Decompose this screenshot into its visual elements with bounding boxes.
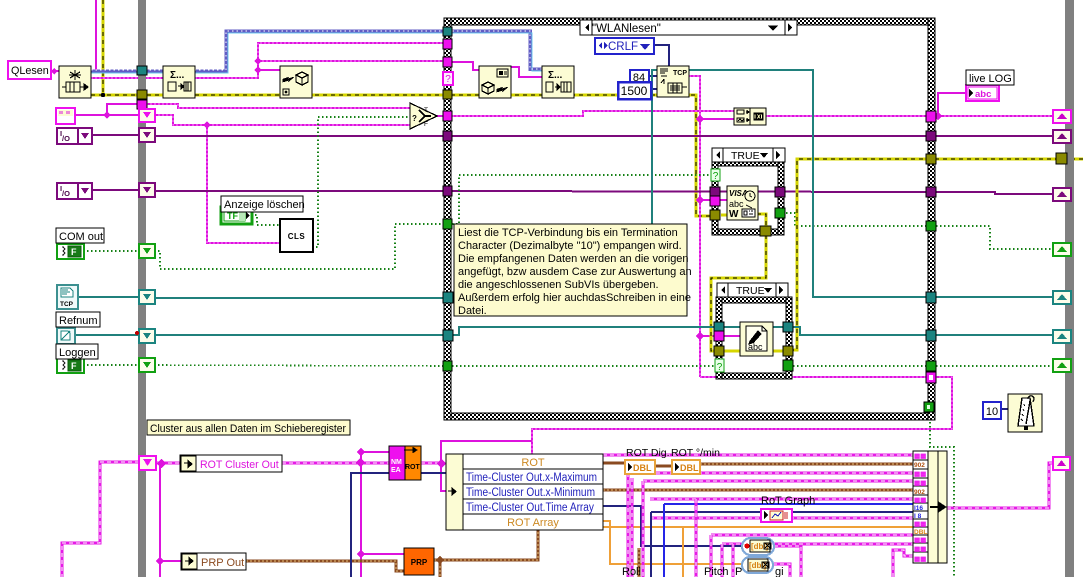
case selector WLANlesen: [580, 20, 797, 35]
svg-text:▦▦: ▦▦: [914, 453, 927, 460]
while loop left border: [138, 0, 146, 577]
svg-text:Datei.: Datei.: [458, 305, 487, 317]
tunnel string right y377: [926, 372, 936, 383]
metronome wait icon: [1008, 394, 1042, 432]
shift register left cluster: [139, 456, 156, 470]
wire purple to shift register y136: [936, 135, 1055, 137]
capsule convert 2: [742, 557, 773, 573]
wire I/O combo 1: [92, 134, 139, 136]
junction dots: [101, 93, 105, 97]
tunnel green bottom: [924, 402, 934, 412]
label live LOG: [966, 70, 1014, 85]
10 constant: [983, 402, 1001, 419]
while loop right border: [1065, 0, 1074, 577]
label Anzeige loeschen: [221, 196, 305, 212]
wire file refnum inside case: [452, 327, 716, 335]
svg-text:P: P: [735, 566, 742, 577]
tunnel teal case2 right: [783, 322, 793, 332]
svg-text:▦▦: ▦▦: [914, 497, 927, 504]
wire QLesen to dequeue: [51, 70, 59, 72]
wire COM out boolean: [83, 250, 139, 252]
label Refnum: [56, 312, 100, 327]
svg-text:Refnum: Refnum: [59, 315, 98, 327]
tunnel queue: [443, 27, 452, 36]
inner case selector TRUE 1: [712, 148, 785, 162]
wire brown y490: [603, 489, 913, 492]
svg-text:TCP: TCP: [673, 70, 687, 77]
shift register left string: [139, 109, 155, 122]
wire blue y504: [664, 503, 913, 505]
VISA write icon: [727, 186, 758, 220]
svg-text:Roll: Roll: [622, 566, 641, 577]
svg-text:ROT: ROT: [405, 464, 421, 471]
wire PRP up to bundle: [440, 530, 538, 560]
tunnel purple y191: [443, 186, 452, 196]
empty string constant: [56, 108, 75, 124]
svg-text:?: ?: [717, 362, 723, 373]
wire orange y527: [603, 526, 913, 528]
svg-text:Σ...: Σ...: [548, 70, 563, 81]
svg-text:1500: 1500: [621, 84, 648, 98]
wire PRP Out to PRP icon: [246, 561, 404, 571]
label COM out: [56, 228, 104, 243]
84 constant: [630, 70, 649, 84]
tunnel error left: [443, 90, 452, 99]
wire 84 to TCP read: [649, 75, 657, 77]
queue status icon: [163, 66, 195, 98]
tunnel olive case1 left: [710, 210, 720, 220]
svg-text:Außerdem erfolg hier auchdasSc: Außerdem erfolg hier auchdasSchreiben in…: [458, 292, 691, 304]
wire tunnel x104 to select top: [146, 104, 410, 108]
tunnel teal y297: [443, 292, 453, 303]
terminal PRP Out: [181, 553, 246, 570]
write file icon: [740, 322, 773, 356]
CRLF enum constant: [595, 38, 654, 54]
svg-text:angefügt, bzw ausdem Case zur: angefügt, bzw ausdem Case zur Auswertung…: [458, 266, 692, 278]
svg-text:10: 10: [986, 406, 998, 418]
wire branch x361 down: [360, 452, 362, 577]
wire error vertical from top at x103: [102, 0, 105, 95]
tunnel teal case2 left: [714, 322, 724, 332]
tunnel olive case2 right: [783, 346, 793, 356]
svg-text:Time-Cluster Out.x-Maximum: Time-Cluster Out.x-Maximum: [466, 472, 597, 484]
svg-text:TRUE: TRUE: [731, 150, 760, 162]
shift register right purple y136: [1053, 130, 1071, 143]
tunnel teal right y335: [926, 330, 936, 341]
QLesen control: [8, 61, 51, 79]
wire into bundle cell 13: [893, 550, 913, 577]
svg-text:W: W: [729, 209, 739, 220]
wire orange to capsule2: [603, 521, 742, 564]
wire file refnum to shift register: [936, 334, 1055, 336]
DBL conversion 1: [625, 460, 655, 474]
wire branch down to PRP Out: [159, 463, 161, 577]
shift register right teal y297: [1053, 291, 1071, 304]
svg-text:Loggen: Loggen: [59, 347, 96, 359]
tunnel question case1: [711, 169, 720, 182]
case structure WLANlesen border: [444, 18, 935, 420]
shift register left Loggen: [139, 358, 155, 372]
wire pink y544: [722, 543, 913, 546]
tunnel purple right y192: [926, 187, 936, 197]
file refnum control: [57, 328, 75, 344]
tunnel green case2 right: [783, 360, 793, 371]
wire dequeue data out branches: [91, 43, 444, 78]
svg-text:ROT Cluster Out: ROT Cluster Out: [200, 459, 279, 471]
wire pink y535: [711, 534, 913, 537]
wire error inside VISA case: [721, 214, 727, 217]
inner case TRUE 1 border: [712, 160, 784, 235]
tunnel question y79: [443, 72, 453, 85]
tunnel green y224: [443, 219, 452, 229]
svg-text:?: ?: [713, 171, 719, 182]
shift register left file refnum: [139, 329, 155, 343]
wire green to shift register y366: [936, 365, 1055, 367]
tunnel green right y366: [926, 361, 936, 371]
svg-text:Liest die TCP-Verbindung bis e: Liest die TCP-Verbindung bis ein Termina…: [458, 227, 678, 239]
svg-text:PRP: PRP: [411, 558, 428, 567]
svg-text:Anzeige löschen: Anzeige löschen: [224, 199, 305, 211]
wire tunnel 62 to unflatten icon: [452, 62, 479, 70]
shift register left TCP refnum: [139, 290, 155, 304]
svg-text:PRP Out: PRP Out: [201, 557, 244, 569]
build array big node: [913, 451, 947, 563]
wire empty string constant out: [74, 114, 140, 116]
label Loggen: [56, 344, 98, 359]
comment box TCP description: [454, 224, 692, 317]
I/O combo box 1: [57, 128, 92, 144]
wire error out of write case to right: [790, 159, 1083, 350]
wire string vertical from top at x96: [95, 0, 97, 71]
svg-text:902: 902: [914, 489, 925, 496]
spreadsheet string to array icon: [542, 66, 574, 98]
wire capsule1 out: [774, 546, 801, 577]
terminal ROT Cluster Out: [180, 455, 282, 472]
tunnel teal right y297: [926, 292, 936, 303]
svg-text:F: F: [71, 247, 77, 257]
svg-text:Cluster aus allen Daten im Sch: Cluster aus allen Daten im Schieberegist…: [150, 423, 346, 435]
svg-text:?: ?: [412, 114, 417, 123]
svg-text:QLesen: QLesen: [11, 65, 49, 77]
tunnel teal on loop border: [137, 66, 147, 75]
svg-text:"WLANlesen": "WLANlesen": [592, 23, 661, 35]
wire Loggen boolean: [83, 364, 139, 366]
wire TCP refnum to shift register: [936, 296, 1055, 298]
wire shiftreg to ROT Cluster Out: [154, 462, 180, 465]
label Cluster aus allen Daten: [147, 420, 350, 435]
tunnel teal y335: [443, 330, 453, 341]
svg-text:▦▦: ▦▦: [914, 521, 927, 528]
svg-text:ROT °/min: ROT °/min: [671, 447, 720, 459]
tunnel green right y226: [926, 221, 936, 231]
tunnel string right y116: [926, 111, 936, 122]
wire ROT row to DBL: [603, 462, 625, 465]
wire select out to tunnel: [436, 115, 444, 117]
svg-text:gi: gi: [775, 566, 784, 577]
svg-text:F: F: [424, 121, 428, 128]
svg-text:Σ...: Σ...: [170, 70, 185, 81]
svg-text:Time-Cluster Out.Time Array: Time-Cluster Out.Time Array: [466, 502, 594, 514]
tunnel olive on loop border: [137, 90, 147, 99]
wire branch to write case tunnel: [700, 335, 716, 337]
svg-text:?: ?: [445, 74, 451, 85]
wire purple to shift register y193: [936, 192, 1055, 194]
wire Loggen green inside case: [452, 365, 716, 367]
coercion dot file refnum: [135, 331, 139, 335]
wire file refnum: [74, 334, 139, 336]
wire match node out to right tunnel: [766, 115, 928, 117]
svg-text:F: F: [71, 361, 77, 371]
svg-text:▦▦: ▦▦: [914, 556, 927, 563]
wire green stepped to shift register: [936, 226, 1055, 249]
svg-text:RoT Graph: RoT Graph: [761, 495, 815, 507]
svg-text:EA: EA: [391, 467, 401, 474]
svg-text:ROT: ROT: [521, 457, 545, 469]
capsule convert 1: [742, 538, 774, 555]
wire navy into bundle row2: [351, 473, 446, 577]
wire cluster out of bundle top right: [603, 454, 913, 457]
wire purple through case y136: [452, 135, 928, 137]
svg-text:CLS: CLS: [288, 232, 306, 241]
svg-text:ROT Dig.: ROT Dig.: [626, 447, 670, 459]
svg-text:die angeschlossenen SubVIs übe: die angeschlossenen SubVIs übergeben.: [458, 279, 659, 291]
tunnel purple right y136: [926, 131, 936, 141]
svg-text:Time-Cluster Out.x-Minimum: Time-Cluster Out.x-Minimum: [466, 487, 595, 499]
tunnel olive case1 bottom: [760, 226, 771, 236]
svg-text:▦▦: ▦▦: [914, 480, 927, 487]
1500 constant: [618, 82, 651, 99]
shift register right string y463: [1053, 457, 1070, 470]
wire CRLF to TCP read: [654, 45, 669, 66]
wire capsule2 out: [773, 564, 790, 577]
shift register left COM out: [139, 244, 155, 258]
svg-text:▦▦: ▦▦: [914, 546, 927, 553]
wire cluster to lower-left exit: [62, 462, 139, 577]
NMEA ROT subVI: [389, 446, 421, 480]
wire navy to capsule1: [603, 506, 742, 546]
inner case selector TRUE 2: [717, 283, 788, 297]
DBL conversion 2: [672, 460, 700, 474]
wire bundle out to shift register: [947, 463, 1055, 508]
wire string to bottom tunnel: [700, 376, 928, 378]
tunnel magenta case2 left: [714, 331, 724, 341]
svg-text:/O: /O: [62, 189, 70, 198]
svg-text:DBL: DBL: [914, 529, 927, 536]
wire PRP out junction down: [434, 560, 440, 577]
wire pink y473: [628, 472, 913, 475]
dequeue element icon: [59, 66, 91, 98]
svg-text:DBL: DBL: [680, 463, 699, 473]
wire string from bottom tunnel long run: [532, 377, 952, 454]
tunnel string y61: [443, 57, 452, 67]
shift register right string y116: [1053, 110, 1071, 123]
wire branch to CLS lower input: [207, 125, 280, 243]
svg-text:TRUE: TRUE: [736, 285, 765, 297]
svg-text:abc: abc: [729, 199, 744, 209]
svg-text:I16: I16: [914, 505, 923, 512]
tunnel magenta on loop border: [137, 100, 147, 109]
svg-text:Die empfangenen Daten werden: Die empfangenen Daten werden an die vori…: [458, 253, 689, 265]
tunnel magenta case1 left: [710, 196, 720, 206]
svg-text:NM: NM: [391, 459, 402, 466]
unflatten from string icon: [479, 66, 511, 98]
svg-text:COM out: COM out: [59, 231, 103, 243]
inner case TRUE 2 border: [716, 297, 792, 379]
tunnel string y116: [443, 111, 452, 121]
svg-text:902: 902: [914, 462, 925, 469]
tunnel olive case2 left: [714, 346, 724, 356]
select node: [410, 103, 437, 129]
wire CLS to select s input: [312, 117, 410, 247]
RoT Graph build xy icon: [761, 509, 792, 522]
wire pink y518: [650, 517, 913, 520]
svg-text:I 8: I 8: [914, 513, 922, 520]
svg-text:DBL: DBL: [633, 463, 652, 473]
TCP read icon: [657, 66, 689, 97]
tunnel green y366: [443, 361, 452, 371]
wire DBL2 out long: [700, 463, 913, 466]
svg-text:▦▦: ▦▦: [914, 471, 927, 478]
wire purple through case y192: [452, 191, 928, 192]
wire live LOG string: [936, 115, 1055, 117]
shift register right teal y335: [1053, 330, 1071, 343]
Loggen boolean constant: [57, 358, 84, 373]
wire pink y499: [650, 498, 913, 501]
wire pink y481: [643, 480, 913, 483]
tunnel string y43: [443, 39, 452, 49]
wire green loop timing: [930, 410, 954, 577]
live LOG string indicator: [966, 85, 999, 101]
shift registers left (down arrows): [135, 109, 156, 470]
shift register left I/O 2: [139, 183, 155, 197]
wire ROT Cluster Out to NMEA: [282, 462, 389, 465]
wire VISA case green out: [782, 213, 928, 226]
tunnel purple case1 right: [775, 187, 785, 197]
tunnel error right y159: [926, 154, 936, 164]
flatten to string icon: [280, 66, 312, 98]
svg-text:abc: abc: [748, 342, 763, 352]
PRP subVI: [404, 548, 434, 575]
shift register right green y366: [1053, 359, 1071, 372]
svg-text:CRLF: CRLF: [608, 41, 638, 53]
svg-text:▦▦: ▦▦: [914, 537, 927, 544]
svg-text:TCP: TCP: [60, 301, 74, 308]
wire unflatten out to spreadsheet icon: [511, 67, 542, 77]
svg-text:ROT Array: ROT Array: [507, 517, 559, 529]
svg-text:/O: /O: [62, 134, 70, 143]
wire 1500 to TCP read: [651, 88, 657, 90]
wire TCP refnum inside case: [452, 70, 657, 297]
svg-text:abc: abc: [975, 89, 991, 100]
svg-text:live LOG: live LOG: [969, 73, 1012, 85]
tunnel green case1 right: [775, 208, 785, 218]
wire branch to VISA case tunnel: [700, 199, 713, 201]
svg-text:Pitch: Pitch: [704, 566, 728, 577]
wire TCP data out vertical: [689, 76, 700, 377]
I/O combo box 2: [57, 183, 92, 199]
wire green to VISA case selector: [452, 175, 713, 224]
shift register right purple y194: [1053, 188, 1071, 201]
wire branch to match node in2: [700, 118, 736, 120]
CLS subVI: [280, 219, 313, 252]
tunnel purple y136: [443, 131, 452, 141]
match pattern node: [734, 108, 766, 125]
shift register right green y249: [1053, 243, 1071, 256]
unbundle by name node: [446, 454, 603, 530]
wire error main run: [91, 95, 713, 216]
wire shiftreg string to select false: [154, 115, 410, 125]
wire error inside write case: [724, 350, 740, 353]
svg-text:T: T: [424, 107, 428, 114]
shift register left I/O 1: [139, 128, 155, 142]
COM out boolean constant: [57, 244, 84, 259]
wire error VISA to write case: [711, 235, 766, 351]
wire I/O combo 2: [92, 189, 139, 191]
tunnel purple case1 left: [710, 187, 720, 197]
wire vertical drops to bottom edge: [627, 473, 630, 577]
wire queue refnum dequeue to array icon: [91, 31, 542, 71]
wire NMEA out: [421, 462, 441, 465]
right loop edge olive tunnel: [1056, 153, 1067, 164]
wire tunnel 116 to match node: [452, 111, 736, 116]
tunnel question case2: [715, 359, 724, 373]
TF boolean constant: [221, 207, 252, 224]
svg-text:Character (Dezimalbyte "10") e: Character (Dezimalbyte "10") empangen wi…: [458, 240, 682, 252]
wire TCP refnum: [77, 296, 139, 298]
wire 10 to metronome: [999, 408, 1009, 410]
wire navy y512: [651, 511, 913, 513]
TCP refnum control: [57, 285, 78, 309]
wire TF to CLS: [251, 215, 280, 225]
